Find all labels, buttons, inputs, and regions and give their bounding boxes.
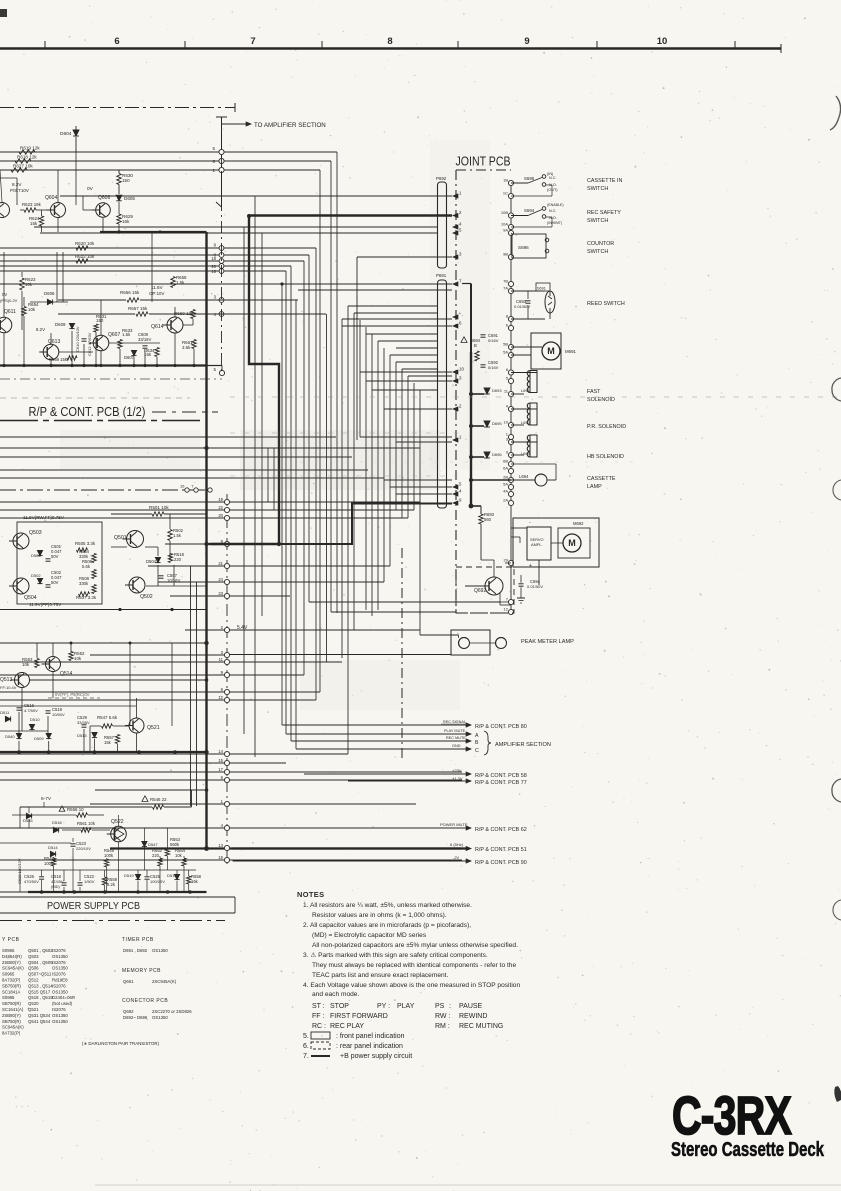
svg-text:PLAY MUTE: PLAY MUTE	[444, 729, 466, 733]
wire REC SIGNAL	[282, 724, 468, 726]
svg-text:POWER MUTE: POWER MUTE	[440, 822, 468, 827]
svg-text:Rd19E8: Rd19E8	[52, 978, 68, 983]
svg-text:D514: D514	[48, 845, 58, 850]
svg-text:10A: 10A	[501, 222, 508, 227]
dash-dot border of R/P CONT PCB top	[0, 107, 235, 109]
resistor R623	[24, 208, 36, 212]
svg-text:JOINT PCB: JOINT PCB	[456, 155, 511, 169]
svg-text:5: 5	[213, 367, 216, 372]
wire bus row 302	[219, 298, 224, 303]
svg-text:and each mode.: and each mode.	[312, 991, 359, 998]
long verticals to power supply	[190, 566, 192, 806]
svg-text:IS2076: IS2076	[52, 960, 66, 965]
svg-text:C: C	[475, 748, 479, 754]
svg-text:8: 8	[387, 36, 392, 47]
svg-text:(OUT): (OUT)	[547, 188, 558, 192]
svg-text:2SB80(Y): 2SB80(Y)	[2, 960, 21, 965]
JOINT PCB right bus	[510, 183, 512, 613]
svg-text:Q514: Q514	[60, 671, 72, 677]
svg-text:Q506: Q506	[28, 966, 39, 971]
capstan wires	[511, 527, 527, 529]
svg-text:R/P & CONT. PCB 77: R/P & CONT. PCB 77	[475, 780, 527, 786]
svg-text:6: 6	[221, 687, 224, 692]
svg-text:D696: D696	[492, 452, 502, 457]
svg-text:R/P & CONT. PCB 80: R/P & CONT. PCB 80	[475, 724, 527, 730]
svg-text:SWITCH: SWITCH	[587, 186, 608, 192]
wire bottom rail thick	[0, 364, 207, 366]
svg-text:AMPL.: AMPL.	[531, 542, 543, 547]
svg-text:R/P & CONT. PCB 51: R/P & CONT. PCB 51	[475, 847, 527, 853]
svg-text:9: 9	[221, 670, 224, 675]
wire thick +B path	[210, 216, 279, 544]
svg-text:RC :: RC :	[312, 1023, 326, 1030]
svg-text:FAST: FAST	[587, 389, 601, 395]
svg-text:B: B	[474, 343, 477, 348]
capstan assembly box	[513, 518, 599, 567]
transistor Q514	[46, 657, 61, 672]
svg-text:0V: 0V	[87, 186, 94, 192]
svg-text:23: 23	[218, 591, 223, 596]
svg-text:1B: 1B	[503, 178, 508, 183]
wire +1.3V	[348, 780, 468, 782]
svg-text:SC1841A: SC1841A	[2, 989, 21, 994]
svg-text:P691: P691	[436, 273, 447, 278]
svg-text:D2404=06R: D2404=06R	[52, 995, 75, 1000]
svg-text:NOTES: NOTES	[297, 890, 324, 899]
svg-text:ST :: ST :	[312, 1003, 325, 1010]
svg-text:D4854I(R): D4854I(R)	[2, 954, 22, 959]
wire thick vertical +B bus	[205, 232, 207, 849]
svg-text:L692: L692	[521, 420, 531, 425]
svg-text:R501 10k: R501 10k	[149, 505, 169, 510]
svg-text:10: 10	[459, 367, 464, 372]
svg-text:11.9V(FF)0.75V: 11.9V(FF)0.75V	[29, 602, 62, 607]
svg-text:(P/S)0.2V: (P/S)0.2V	[0, 298, 18, 303]
svg-text:B: B	[475, 740, 479, 746]
svg-text:L694: L694	[519, 474, 529, 479]
svg-text:OS1350: OS1350	[52, 966, 68, 971]
svg-text:*: *	[459, 312, 461, 317]
thick +B bus joint area	[470, 352, 472, 506]
svg-text:12: 12	[218, 695, 223, 700]
svg-text:SC1641(A): SC1641(A)	[2, 1007, 24, 1012]
svg-text:D545: D545	[23, 818, 33, 823]
amplifier section brace	[484, 731, 491, 755]
svg-text:+B power supply circuit: +B power supply circuit	[340, 1053, 412, 1060]
wire vertical x63	[62, 252, 64, 302]
svg-text:(∗ DARLINGTON PAIR TRANSISTOR): (∗ DARLINGTON PAIR TRANSISTOR)	[82, 1041, 160, 1046]
svg-text:Q512: Q512	[28, 978, 39, 983]
svg-text:N.C.: N.C.	[549, 176, 557, 180]
svg-text:9B: 9B	[503, 252, 508, 257]
svg-text:2SB80(Y): 2SB80(Y)	[2, 1013, 21, 1018]
svg-text:11.6V: 11.6V	[151, 285, 164, 290]
warning R694	[461, 337, 467, 343]
svg-text:Q515 Q517: Q515 Q517	[28, 989, 51, 994]
svg-text:D504: D504	[146, 559, 157, 564]
svg-text:2. All capacitor values are i: 2. All capacitor values are in microfara…	[303, 922, 471, 929]
svg-text:560k: 560k	[170, 842, 180, 847]
diode D547	[142, 841, 147, 846]
wires from left pins	[0, 501, 224, 503]
svg-text:SB750(R): SB750(R)	[2, 1001, 21, 1006]
svg-text:10k: 10k	[175, 853, 183, 858]
diode D605	[116, 195, 122, 201]
svg-text:D511: D511	[0, 710, 10, 715]
wire POWER MUTE	[233, 827, 468, 829]
svg-text:STOP: STOP	[330, 1003, 349, 1010]
svg-text:220/10V: 220/10V	[76, 846, 91, 851]
svg-text:TIMER PCB: TIMER PCB	[122, 937, 154, 943]
svg-text:Q503: Q503	[28, 954, 39, 959]
svg-text:IS2076: IS2076	[52, 1007, 66, 1012]
svg-text:-: -	[529, 520, 531, 526]
svg-text:Q661: Q661	[123, 979, 134, 984]
svg-text:R620 10k: R620 10k	[75, 241, 95, 246]
svg-text:R561 10k: R561 10k	[77, 821, 96, 826]
wire GND	[296, 748, 468, 750]
resistor R623b	[20, 278, 24, 290]
dash-dot border with pins 16 7 5	[0, 489, 214, 491]
svg-text:(Not used): (Not used)	[52, 1001, 73, 1006]
svg-text:3. ⚠ Parts marked with this: 3. ⚠ Parts marked with this sign are saf…	[303, 951, 488, 959]
pin 5 junction	[207, 365, 223, 367]
JOINT PCB left pins and arrows	[452, 193, 458, 198]
dashed level label	[48, 697, 100, 699]
svg-text:TEAC parts list and ensure exa: TEAC parts list and ensure exact replace…	[312, 972, 449, 979]
svg-text:13: 13	[218, 843, 223, 848]
svg-text:HB SOLENOID: HB SOLENOID	[587, 454, 624, 460]
svg-text:PY :: PY :	[377, 1003, 390, 1010]
wire bus R622 row	[0, 260, 304, 262]
bundle right-side horizontals into JOINT	[298, 289, 452, 291]
svg-text:(ENABLE): (ENABLE)	[547, 203, 564, 207]
resistor R654	[22, 307, 26, 316]
svg-text:CASSETTE IN: CASSETTE IN	[587, 178, 622, 184]
svg-text:R656 15k: R656 15k	[120, 290, 140, 295]
wire top rail power supply	[20, 806, 152, 808]
svg-text:All non-polarized capacitors a: All non-polarized capacitors are ±5% myl…	[312, 942, 518, 949]
wire bus row 309	[219, 312, 224, 317]
switch S696 counter	[512, 234, 546, 258]
capstan motor M692	[558, 528, 590, 558]
svg-text:TO AMPLIFIER SECTION: TO AMPLIFIER SECTION	[254, 122, 326, 129]
svg-text:AMPLIFIER SECTION: AMPLIFIER SECTION	[495, 742, 551, 748]
svg-text:D502: D502	[31, 573, 41, 578]
svg-text:R659 15k: R659 15k	[49, 357, 68, 362]
svg-text:Q502: Q502	[140, 594, 153, 600]
wire -2V	[233, 860, 468, 862]
svg-text:470/50V: 470/50V	[24, 879, 39, 884]
reel motor M691	[531, 333, 561, 369]
svg-text:22: 22	[218, 505, 223, 510]
resistor R658	[171, 277, 175, 288]
ruler ticks	[44, 41, 46, 48]
warning resistor R556	[59, 806, 65, 811]
dashed box around Q692	[456, 567, 514, 613]
svg-text:11: 11	[219, 657, 224, 662]
power supply label box	[0, 896, 235, 898]
svg-text:D604: D604	[60, 131, 72, 137]
svg-text:IS2076: IS2076	[52, 948, 66, 953]
svg-text:10: 10	[504, 420, 509, 425]
svg-text:D606: D606	[44, 291, 55, 296]
svg-text:15k: 15k	[104, 740, 112, 745]
svg-text:Stereo Cassette Deck: Stereo Cassette Deck	[671, 1138, 824, 1161]
dash border above label	[0, 378, 222, 380]
svg-text:7A: 7A	[503, 286, 508, 291]
servo amp box	[527, 527, 551, 560]
svg-text:10: 10	[657, 36, 668, 47]
transistor Q502	[129, 577, 145, 593]
svg-text:10k: 10k	[22, 662, 30, 667]
svg-text:24: 24	[218, 577, 223, 582]
svg-text:SC945A(K): SC945A(K)	[2, 966, 24, 971]
svg-text:9: 9	[214, 243, 217, 248]
diode D695	[484, 421, 490, 427]
svg-text:R/P & CONT. PCB 58: R/P & CONT. PCB 58	[475, 773, 527, 779]
reed switch S691	[511, 290, 545, 292]
JOINT PCB right pin circles	[508, 180, 513, 185]
svg-text:PLAY: PLAY	[397, 1003, 415, 1010]
svg-text:D609: D609	[55, 322, 66, 327]
svg-text:5B: 5B	[503, 342, 508, 347]
svg-text::: :	[449, 1003, 451, 1010]
svg-text:9: 9	[459, 498, 462, 503]
svg-text:9: 9	[524, 36, 529, 47]
svg-text:4: 4	[459, 489, 462, 494]
wire lamp rail top	[0, 642, 207, 644]
svg-text:7.: 7.	[303, 1053, 309, 1060]
resistor R552a	[69, 652, 73, 661]
svg-text:M: M	[547, 346, 555, 356]
svg-text:PAUSE: PAUSE	[459, 1003, 483, 1010]
svg-text:0V: 0V	[2, 292, 7, 297]
svg-text:R619 12k: R619 12k	[20, 146, 40, 151]
svg-text:11.9V(RW,FF)0.75V: 11.9V(RW,FF)0.75V	[23, 515, 65, 520]
svg-text:8A732(P): 8A732(P)	[2, 978, 21, 983]
svg-text:S0965: S0965	[2, 948, 15, 953]
svg-text:3.6k: 3.6k	[182, 345, 191, 350]
svg-text:: rear panel indication: : rear panel indication	[336, 1043, 403, 1050]
svg-text:Resistor values are in ohms (k: Resistor values are in ohms (k = 1,000 o…	[312, 912, 447, 919]
svg-text:M: M	[568, 538, 576, 548]
svg-text:C528 100/10V: C528 100/10V	[17, 858, 22, 884]
diode D607	[131, 350, 136, 355]
svg-text:Q611: Q611	[4, 309, 16, 315]
svg-text:OS1350: OS1350	[52, 1013, 68, 1018]
svg-text:They must always be replaced w: They must always be replaced with identi…	[312, 962, 516, 969]
svg-text:Q501: Q501	[114, 535, 127, 541]
svg-text:7: 7	[250, 36, 255, 47]
bundle top corner horizontals to left	[60, 195, 255, 197]
svg-text:D547: D547	[148, 842, 158, 847]
vertical wires upper cluster	[57, 170, 59, 202]
svg-text:: front panel indication: : front panel indication	[336, 1033, 405, 1040]
wire bus row 8	[0, 254, 309, 256]
svg-text:5: 5	[212, 146, 215, 151]
wire rail below block	[0, 609, 207, 611]
svg-text:16: 16	[218, 855, 223, 860]
svg-text:0/16V: 0/16V	[488, 365, 499, 370]
svg-text:0.01/50V: 0.01/50V	[527, 584, 543, 589]
svg-text:5A: 5A	[503, 350, 508, 355]
svg-text:6 (5Hz): 6 (5Hz)	[450, 842, 464, 847]
switch S694 rec safety	[511, 215, 528, 217]
svg-text:PS: PS	[435, 1003, 445, 1010]
svg-text:CONECTOR PCB: CONECTOR PCB	[122, 998, 168, 1004]
svg-text:Q692: Q692	[474, 588, 486, 594]
svg-text:REC MUTING: REC MUTING	[459, 1023, 503, 1030]
svg-text:SB750(R): SB750(R)	[2, 983, 21, 988]
svg-text:16: 16	[211, 269, 216, 274]
svg-text:0/16V: 0/16V	[488, 338, 499, 343]
pin column border dash	[226, 494, 228, 868]
wire Q613 Q607 links	[59, 351, 93, 353]
transistor Q504	[13, 578, 29, 594]
svg-text:OS1350: OS1350	[52, 954, 68, 959]
svg-text:10k: 10k	[74, 656, 82, 661]
svg-text:D510: D510	[30, 717, 40, 722]
wire bottom rail power supply thick	[28, 891, 207, 893]
diode D696	[484, 452, 490, 458]
svg-text:15: 15	[218, 758, 223, 763]
svg-text:FIRST FORWARD: FIRST FORWARD	[330, 1013, 388, 1020]
wire bundle central verticals	[243, 227, 245, 734]
svg-text:Q513 , Q514: Q513 , Q514	[28, 983, 53, 988]
svg-text:Q518 , Q519: Q518 , Q519	[28, 995, 53, 1000]
svg-text:D519: D519	[124, 873, 134, 878]
svg-text:CASSETTE: CASSETTE	[587, 476, 616, 482]
wire bus row 16	[0, 270, 286, 272]
svg-text:OS1350: OS1350	[52, 989, 68, 994]
svg-text:7B: 7B	[503, 279, 508, 284]
svg-text:COUNTOR: COUNTOR	[587, 241, 614, 247]
svg-text:Y PCB: Y PCB	[2, 937, 20, 943]
svg-text:Q504 , Q505: Q504 , Q505	[28, 960, 53, 965]
svg-text:FF :: FF :	[312, 1013, 324, 1020]
wire Q513 collector row	[30, 679, 207, 681]
svg-text:0V(FF), P5(RC)0V: 0V(FF), P5(RC)0V	[55, 692, 90, 697]
svg-text:C610 220/10V: C610 220/10V	[75, 326, 80, 352]
svg-text:+23V: +23V	[452, 768, 462, 773]
svg-text:S0985: S0985	[2, 995, 15, 1000]
svg-text:R622 10k: R622 10k	[75, 254, 95, 259]
svg-text:4: 4	[221, 823, 224, 828]
bottom faint edge line	[95, 1184, 841, 1186]
edge blob near logo	[834, 1086, 841, 1102]
svg-text:Q507~Q511: Q507~Q511	[28, 972, 52, 977]
svg-text:S696: S696	[518, 245, 529, 250]
svg-text:OS1350: OS1350	[52, 1019, 68, 1024]
svg-text:P.R. SOLENOID: P.R. SOLENOID	[587, 424, 626, 430]
wire bus row 20	[0, 265, 291, 267]
svg-text:PEAK METER LAMP: PEAK METER LAMP	[521, 639, 574, 645]
right edge curl mark	[830, 96, 841, 130]
svg-text:SC945A(K): SC945A(K)	[2, 1025, 24, 1030]
svg-text:16k: 16k	[191, 879, 199, 884]
transistor Q692	[485, 577, 503, 595]
svg-text:D693: D693	[492, 388, 502, 393]
svg-text:L691: L691	[521, 388, 531, 393]
ground symbol	[517, 597, 525, 599]
resistor R518	[168, 554, 172, 563]
dash border right PCB edge	[401, 548, 403, 760]
svg-text:7: 7	[191, 484, 194, 489]
svg-text:OS1350: OS1350	[152, 948, 168, 953]
svg-text:50V: 50V	[51, 554, 59, 559]
svg-text:REC PLAY: REC PLAY	[330, 1023, 364, 1030]
svg-text:SWITCH: SWITCH	[587, 218, 608, 224]
wire bus R619 row	[0, 151, 337, 153]
svg-text:C-3RX: C-3RX	[672, 1086, 792, 1146]
svg-text:4. Each Voltage value shown a: 4. Each Voltage value shown above is the…	[303, 982, 520, 989]
power supply verticals	[28, 807, 30, 813]
svg-text:2: 2	[221, 625, 224, 630]
dashes after label	[152, 411, 218, 413]
svg-text:8A732(P): 8A732(P)	[2, 1031, 21, 1036]
wire +23V	[304, 773, 468, 775]
svg-text:Q692: Q692	[123, 1009, 134, 1014]
svg-text:Q522: Q522	[111, 819, 124, 825]
svg-text:R556 10: R556 10	[67, 807, 84, 812]
svg-text:GND: GND	[452, 744, 461, 748]
svg-text:Q541 Q544: Q541 Q544	[28, 1019, 51, 1024]
pins column left PCB	[224, 499, 229, 504]
peak meter lamp box	[451, 630, 490, 655]
wire rows mid-left block	[0, 436, 336, 438]
svg-text:6: 6	[221, 775, 224, 780]
svg-text:N.C.: N.C.	[549, 209, 557, 213]
svg-text:15k: 15k	[122, 219, 130, 224]
svg-text:S694: S694	[524, 208, 535, 213]
dash-dot line below power supply	[0, 920, 225, 922]
svg-text:6: 6	[114, 36, 119, 47]
Q692 emitter wires	[499, 593, 501, 605]
svg-text:6.: 6.	[303, 1043, 309, 1050]
svg-text:100/10V: 100/10V	[150, 879, 165, 884]
ruler line	[0, 47, 781, 50]
svg-text:D695: D695	[492, 421, 502, 426]
svg-text:Q501 , Q502: Q501 , Q502	[28, 948, 53, 953]
peak meter lamps	[459, 638, 470, 649]
svg-text:POWER SUPPLY PCB: POWER SUPPLY PCB	[47, 901, 140, 912]
warning resistor R546	[142, 796, 148, 802]
svg-text:P692: P692	[436, 176, 447, 181]
svg-text:Q521: Q521	[147, 725, 160, 731]
wire PLAY MUTE	[286, 733, 468, 735]
transistor Q521	[129, 718, 144, 733]
wire lamp rail bottom thick	[0, 751, 207, 753]
svg-text:R547 5.6k: R547 5.6k	[97, 715, 118, 720]
svg-text:1: 1	[221, 799, 224, 804]
svg-text:R546 22: R546 22	[150, 797, 167, 802]
svg-text:OS1350: OS1350	[152, 1015, 168, 1020]
svg-text:100k: 100k	[104, 853, 114, 858]
fast solenoid L691	[530, 371, 537, 393]
svg-text:IS2076: IS2076	[52, 972, 66, 977]
svg-text:19: 19	[218, 497, 223, 502]
svg-text:C612 47/63V: C612 47/63V	[87, 332, 92, 356]
svg-text:D691 , D692: D691 , D692	[123, 948, 148, 953]
svg-text:2SC945A(K): 2SC945A(K)	[152, 979, 177, 984]
svg-text:2SC2270 or 2SD826: 2SC2270 or 2SD826	[152, 1009, 192, 1014]
svg-text:D518: D518	[52, 820, 62, 825]
svg-text:5A: 5A	[503, 482, 508, 487]
svg-text:50V: 50V	[51, 580, 59, 585]
svg-text:(MD): (MD)	[51, 884, 61, 889]
resistor R502	[168, 530, 172, 541]
